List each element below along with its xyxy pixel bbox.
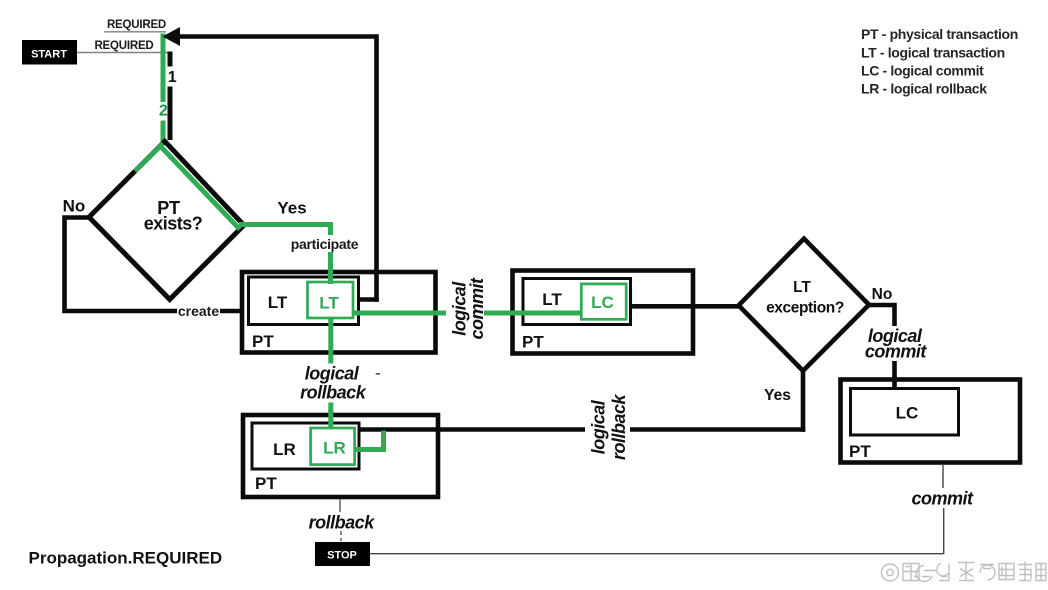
wire green line into LC [510, 311, 581, 316]
label No [63, 197, 86, 216]
watermark [882, 562, 1047, 582]
wire thick rollback horizontal right part [630, 427, 805, 432]
label LC green box2 [591, 293, 614, 312]
wire thin commit line lower [943, 508, 945, 554]
decision diamond PT exists? [89, 141, 244, 299]
wire green overlay upper-right edge [161, 147, 240, 230]
svg-text:logical: logical [305, 364, 360, 384]
label LC box4 [896, 404, 919, 423]
wire green rollback entry into LR green box [328, 410, 333, 429]
label logical commit vertical [450, 277, 488, 340]
label 1 [168, 69, 177, 86]
wire No path diamond2 to LC box [869, 305, 895, 389]
node STOP [315, 542, 370, 566]
wire green rollback down segment B [328, 403, 333, 430]
label Yes [277, 199, 306, 218]
svg-text:REQUIRED: REQUIRED [94, 40, 153, 52]
svg-text:commit: commit [865, 342, 928, 362]
svg-text:PT: PT [522, 333, 544, 352]
label PT box1 [252, 332, 274, 351]
label participate [288, 235, 362, 252]
arrowhead of feedback loop [163, 27, 181, 46]
wire green rollback down segment A [328, 318, 333, 364]
svg-text:rollback: rollback [309, 513, 376, 533]
wire green logical commit line right part [484, 311, 581, 316]
svg-text:LT - logical transaction: LT - logical transaction [861, 44, 1005, 60]
wire green overlay upper-left edge [135, 144, 163, 172]
label 2 [159, 103, 168, 120]
label commit italic [911, 489, 974, 509]
svg-text:PT - physical transaction: PT - physical transaction [861, 26, 1018, 42]
svg-text:No: No [872, 286, 893, 303]
svg-text:logicalrollback: logicalrollback [589, 393, 630, 460]
node LT box 1 inner [249, 277, 359, 325]
node PT box 2 outer [513, 271, 694, 354]
legend [861, 26, 1018, 96]
svg-text:Yes: Yes [277, 199, 306, 218]
svg-text:LR: LR [273, 440, 296, 459]
label LT black box1 [268, 293, 288, 312]
small dash mark [376, 373, 380, 375]
svg-text:logicalcommit: logicalcommit [450, 277, 488, 340]
svg-text:START: START [31, 49, 67, 61]
svg-text:LT: LT [793, 279, 811, 296]
label rollback italic [309, 513, 376, 533]
wire thin dashes to STOP [340, 531, 342, 541]
decision diamond LT exception? [739, 239, 869, 371]
label REQUIRED top [107, 19, 166, 31]
wire thin rollback line above text [339, 499, 341, 512]
wire thin commit line upper [942, 465, 944, 488]
wire feedback loop inside PT box1 [358, 270, 379, 302]
wire feedback loop from inner LT box to top arrow [176, 37, 377, 300]
svg-text:PT: PT [252, 332, 274, 351]
svg-text:LC - logical commit: LC - logical commit [861, 63, 984, 79]
wire green hook from LR box [355, 431, 384, 450]
svg-text:create: create [178, 303, 219, 319]
svg-text:LC: LC [591, 293, 614, 312]
svg-text:rollback: rollback [300, 383, 367, 403]
svg-text:1: 1 [168, 69, 177, 86]
node LC box inner [851, 389, 959, 436]
wire START to REQUIRED line (thin gray) [77, 52, 170, 54]
svg-text:LR - logical rollback: LR - logical rollback [861, 81, 987, 97]
label REQUIRED bottom [94, 40, 153, 52]
wire green entry line upper (call 2) [161, 34, 166, 103]
label logical rollback italic [300, 364, 367, 403]
node PT box 3 outer (LR) [243, 415, 438, 497]
wire black line box2 to diamond2 [631, 304, 740, 309]
node LR green box [311, 428, 355, 465]
wire STOP to commit line [370, 553, 944, 555]
label PT box4 [849, 442, 871, 461]
label logical rollback vertical [589, 393, 630, 460]
svg-text:commit: commit [911, 489, 974, 509]
node START [22, 40, 77, 65]
svg-text:LT: LT [542, 290, 562, 309]
wire green logical commit line left part [353, 311, 446, 316]
svg-text:participate: participate [291, 236, 359, 252]
label LR green [323, 439, 346, 458]
svg-text:LC: LC [896, 404, 919, 423]
wire thick rollback horizontal left part [360, 427, 585, 432]
svg-text:LT: LT [268, 293, 288, 312]
svg-text:LT: LT [319, 294, 339, 313]
svg-text:STOP: STOP [327, 550, 357, 562]
node PT box 4 outer (LC) [841, 380, 1021, 463]
label LR black [273, 440, 296, 459]
wire REQUIRED underline top (thin gray) [104, 31, 166, 33]
wire black segment below label 1 [168, 87, 173, 141]
svg-text:exception?: exception? [766, 300, 844, 317]
svg-text:PT: PT [849, 442, 871, 461]
svg-text:REQUIRED: REQUIRED [107, 19, 166, 31]
svg-text:exists?: exists? [144, 214, 203, 234]
svg-text:No: No [63, 197, 86, 216]
label LT box2 [542, 290, 562, 309]
node LC green box2 [581, 284, 626, 319]
label PT box3 [255, 474, 277, 493]
label PT box2 [522, 333, 544, 352]
node LR box inner [252, 423, 359, 469]
label LT green box1 [319, 294, 339, 313]
node LT box 2 inner [523, 279, 631, 325]
node LT green box1 [308, 282, 354, 318]
wire participate green entry into LT green box [328, 267, 333, 284]
wire green Yes path to participate [239, 225, 331, 285]
svg-text:2: 2 [159, 103, 168, 120]
svg-text:Propagation.REQUIRED: Propagation.REQUIRED [29, 549, 223, 568]
wire Yes path diamond2 down [801, 370, 806, 432]
node PT box 1 outer [242, 272, 436, 353]
label Yes diamond2 [764, 387, 791, 404]
label Propagation.REQUIRED [29, 549, 223, 568]
label create [178, 303, 219, 319]
svg-text:LR: LR [323, 439, 346, 458]
wire No path from diamond1 to PT box1 [65, 218, 244, 312]
wire green entry line lower [161, 121, 166, 146]
label No diamond2 [872, 286, 893, 303]
label logical commit italic right [865, 326, 928, 362]
wire black segment 1 (call 1) [168, 52, 173, 67]
svg-text:Yes: Yes [764, 387, 791, 404]
wire No path entry into PT box4 [892, 375, 897, 390]
svg-text:PT: PT [255, 474, 277, 493]
